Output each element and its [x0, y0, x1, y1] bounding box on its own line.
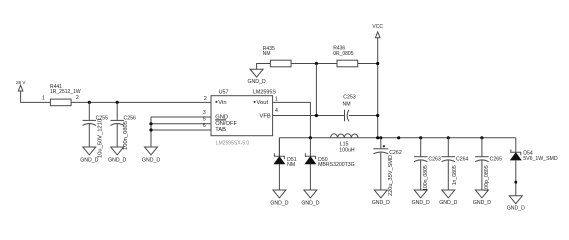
svg-text:0R_0805: 0R_0805: [333, 51, 354, 57]
svg-text:GND_D: GND_D: [248, 79, 266, 85]
svg-text:GND_D: GND_D: [142, 157, 160, 163]
svg-text:5: 5: [203, 117, 206, 123]
svg-text:6: 6: [203, 123, 206, 129]
svg-text:VFB: VFB: [260, 114, 271, 120]
svg-text:GND_D: GND_D: [301, 200, 319, 206]
svg-text:4: 4: [275, 108, 278, 114]
svg-text:2: 2: [76, 95, 79, 101]
svg-text:1R_2512_1W: 1R_2512_1W: [50, 89, 81, 95]
svg-text:NM: NM: [263, 51, 271, 57]
svg-text:100n_0805: 100n_0805: [123, 121, 129, 150]
svg-text:GND_D: GND_D: [372, 200, 390, 206]
svg-text:1n_0805: 1n_0805: [452, 165, 458, 185]
svg-text:Vout: Vout: [257, 100, 269, 106]
svg-text:GND_D: GND_D: [473, 200, 491, 206]
svg-text:GND_D: GND_D: [270, 200, 288, 206]
svg-text:MBRS3200T3G: MBRS3200T3G: [318, 162, 355, 168]
svg-text:100n_0805: 100n_0805: [423, 165, 429, 191]
svg-text:220u_35V_SMD: 220u_35V_SMD: [388, 155, 394, 196]
svg-text:100uH: 100uH: [339, 147, 355, 153]
svg-text:1: 1: [42, 95, 45, 101]
svg-text:C263: C263: [428, 156, 441, 162]
svg-text:28 V: 28 V: [16, 80, 26, 85]
svg-text:C264: C264: [456, 156, 469, 162]
svg-text:1: 1: [275, 96, 278, 102]
svg-text:GND_D: GND_D: [80, 157, 98, 163]
svg-text:5V6_1W_SMD: 5V6_1W_SMD: [523, 156, 558, 162]
svg-text:100p_0805: 100p_0805: [484, 165, 490, 192]
svg-text:10u_50V_1210: 10u_50V_1210: [97, 119, 103, 158]
svg-text:TAB: TAB: [215, 127, 226, 133]
svg-text:C256: C256: [124, 115, 137, 121]
svg-text:Vin: Vin: [218, 100, 226, 106]
svg-text:C265: C265: [490, 156, 503, 162]
svg-text:GND_D: GND_D: [439, 200, 457, 206]
svg-text:GND_D: GND_D: [507, 206, 525, 212]
svg-text:NM: NM: [287, 162, 295, 168]
svg-text:U57: U57: [219, 90, 229, 96]
svg-text:GND_D: GND_D: [412, 200, 430, 206]
svg-text:2: 2: [204, 96, 207, 102]
svg-text:LM2595S: LM2595S: [253, 90, 276, 96]
svg-text:NM: NM: [343, 102, 351, 108]
svg-text:GND_D: GND_D: [108, 157, 126, 163]
svg-text:LM2595SX-5.0: LM2595SX-5.0: [216, 140, 250, 146]
svg-text:VCC: VCC: [372, 24, 383, 30]
svg-text:ON/OFF: ON/OFF: [215, 121, 237, 127]
svg-text:3: 3: [203, 110, 206, 116]
svg-text:C253: C253: [343, 94, 356, 100]
